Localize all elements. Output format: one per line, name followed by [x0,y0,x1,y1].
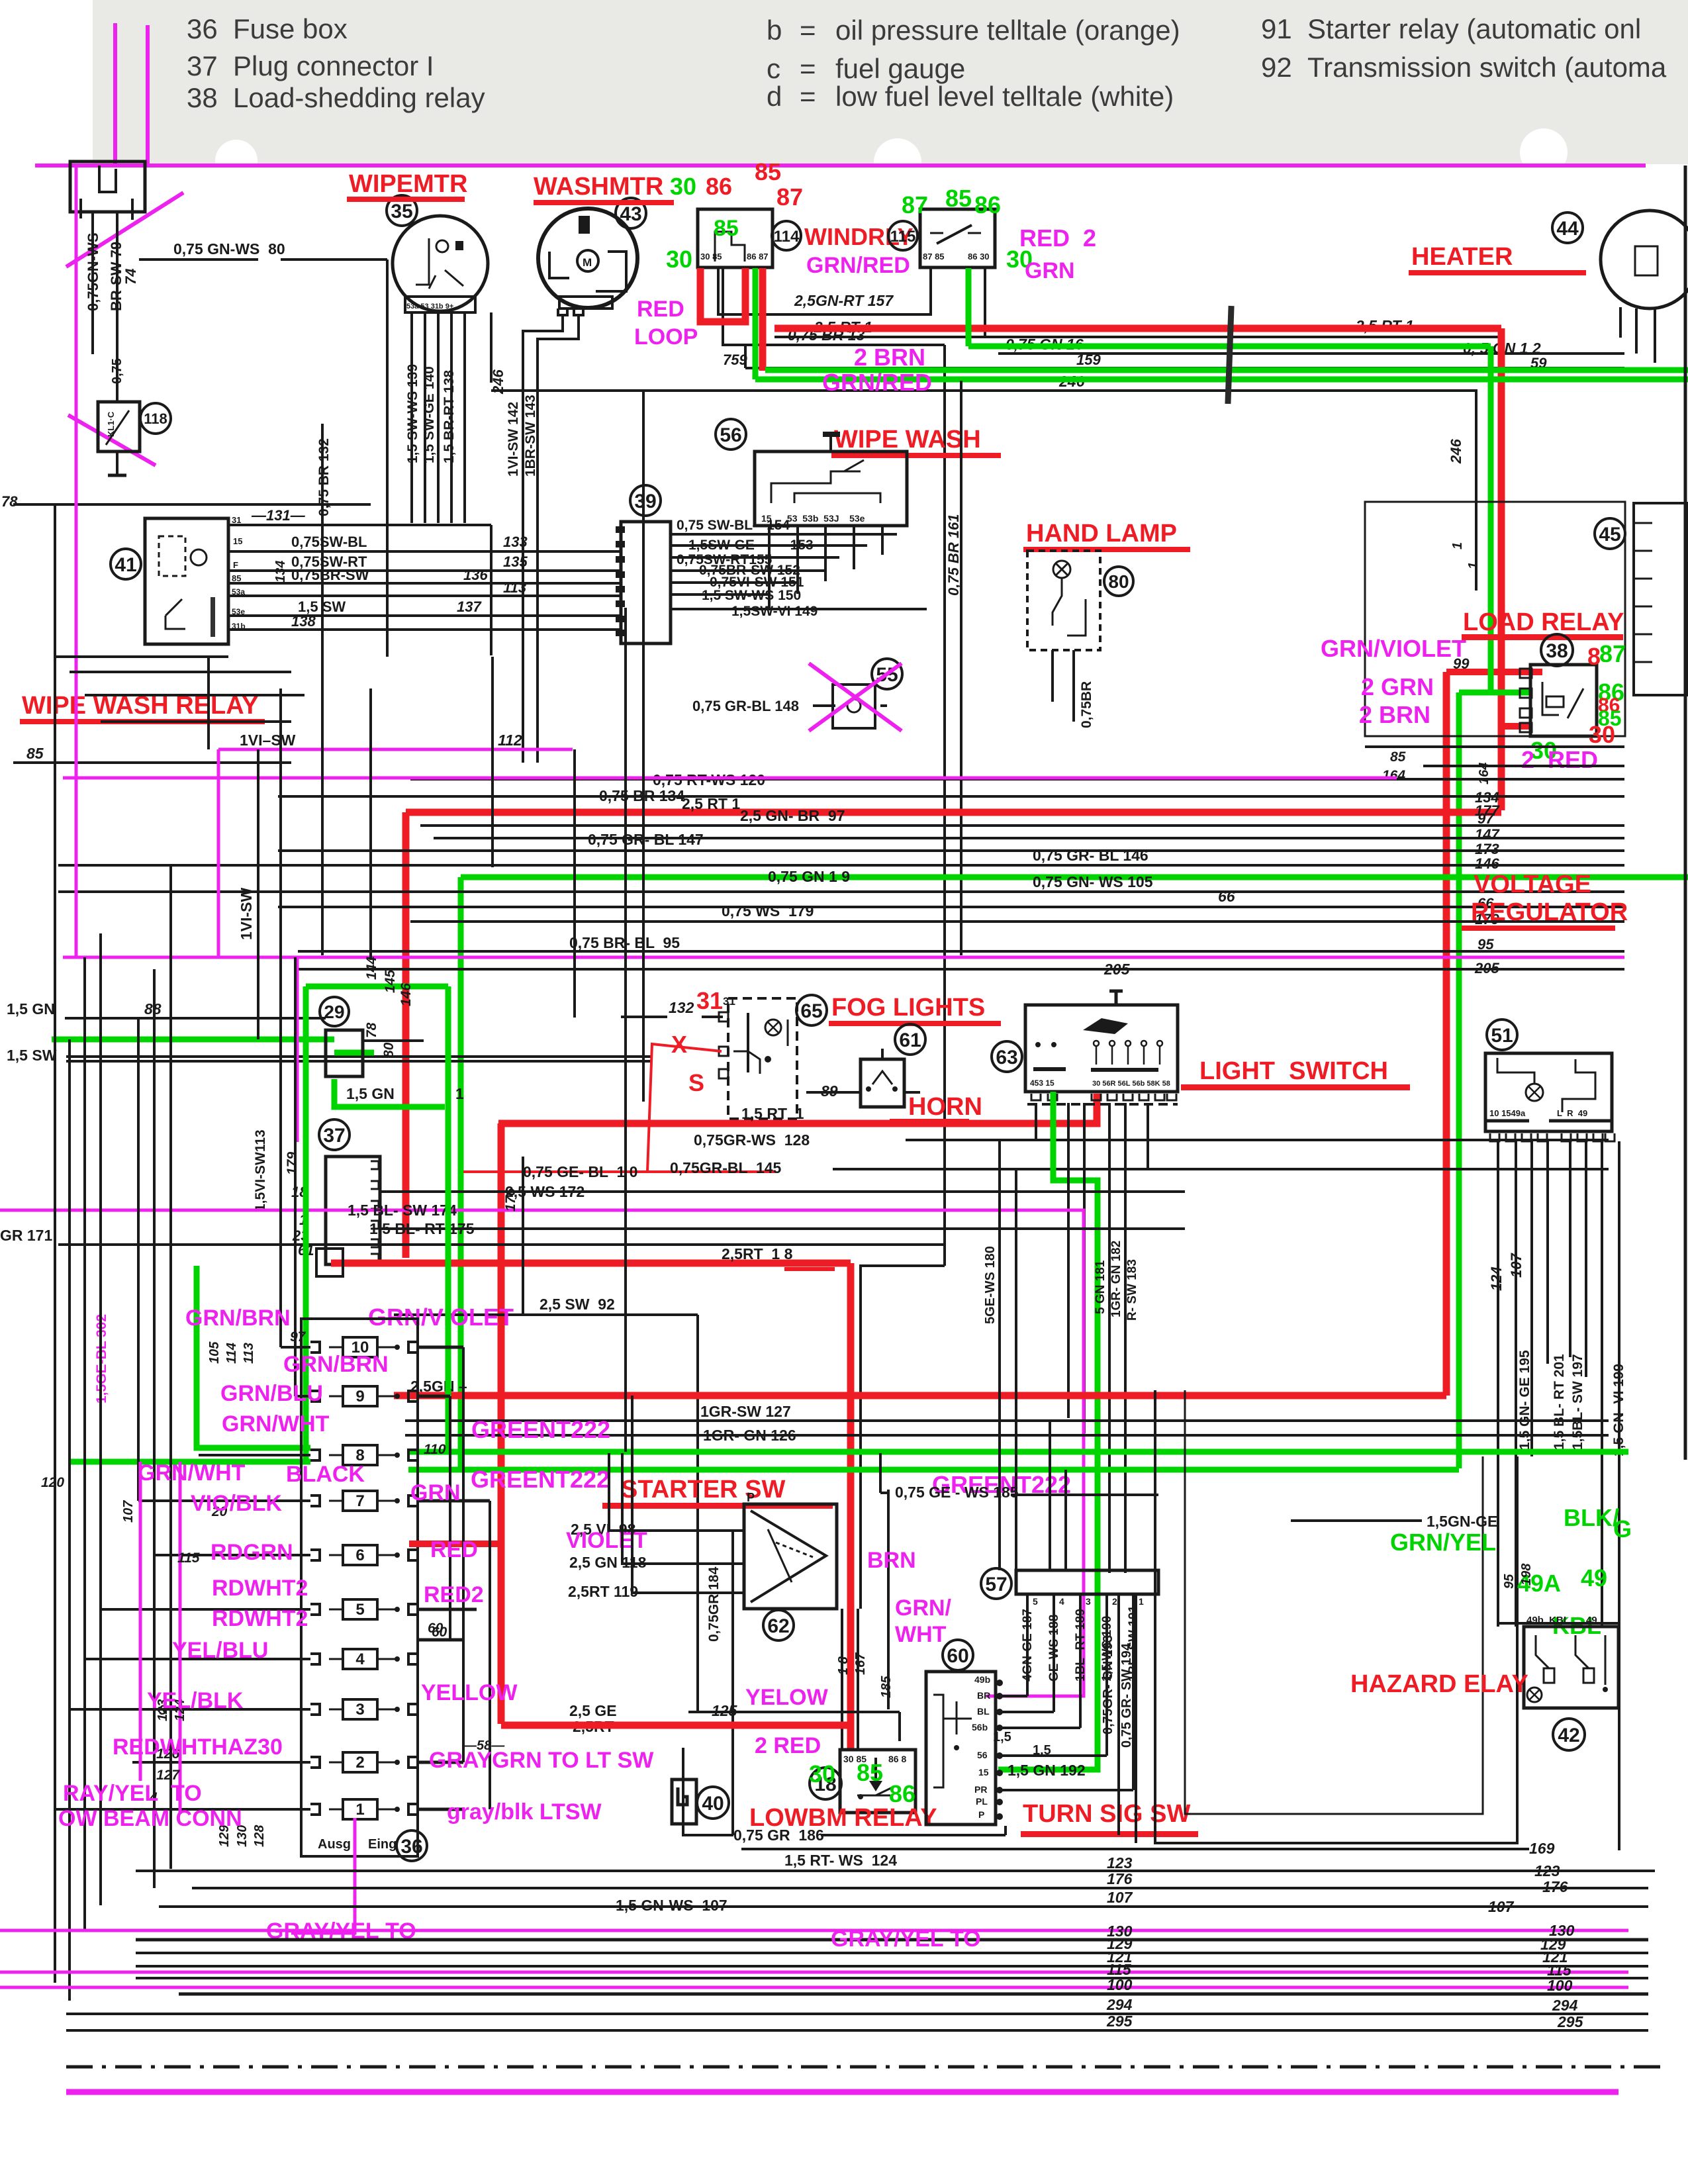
wire 63 drop c [1108,1103,1111,1573]
fuse 5 [343,1599,377,1619]
svg-text:1,5 SW: 1,5 SW [7,1047,57,1064]
wire scan edge [1684,166,1687,1460]
svg-text:RDWHT2: RDWHT2 [212,1576,308,1601]
svg-text:L R 49: L R 49 [1557,1108,1587,1118]
wire wire 0,75SW-BL 154 [671,533,897,536]
svg-text:=: = [800,15,816,46]
wire red marker to load relay [1498,328,1505,810]
svg-text:Load-shedding relay: Load-shedding relay [233,82,485,113]
wire wire 78 [13,503,371,506]
svg-text:123: 123 [1107,1854,1133,1872]
wire wire 131 down [490,525,492,655]
big wiring loop rectangle [1155,1390,1517,1843]
svg-text:0,75 GE- BL 1 0: 0,75 GE- BL 1 0 [523,1163,637,1180]
wire green marker bus 1 [968,344,1491,350]
wire red marker 99 into relay 38 [1446,669,1542,675]
wire 51 drop c [1530,1141,1533,1456]
svg-text:0,75GR-BL 145: 0,75GR-BL 145 [670,1159,782,1176]
connector 57 pins [1026,1594,1029,1605]
svg-text:29: 29 [324,1002,344,1022]
svg-text:169: 169 [1529,1840,1555,1857]
punch hole 3 [1520,128,1568,176]
switch 60 pin dot [996,1770,1003,1776]
svg-text:31b: 31b [232,622,246,631]
svg-text:1,5 SW-WS 150: 1,5 SW-WS 150 [702,588,801,603]
wire red marker 117 [498,1094,1097,1123]
wire green marker 29 out [334,1050,374,1056]
component turn signal switch 60 [926,1672,996,1825]
fuse 4 terminals [310,1654,320,1664]
svg-text:87: 87 [902,191,928,218]
wire green marker v1 [445,986,451,1452]
wire green marker row a [408,1449,1628,1455]
wire fuse7 feed [138,1499,310,1502]
fuse 2 [343,1752,377,1772]
wire wire under 38 a [1365,745,1624,748]
wire green marker into 38 [1488,346,1494,692]
svg-text:0,75BR: 0,75BR [1079,681,1094,728]
wire 63 drop a [1067,1103,1070,1418]
wire wire GN-WS down [91,212,94,354]
fuse 4 [343,1649,377,1669]
svg-text:GRN/BRN: GRN/BRN [283,1352,389,1377]
wire red marker row 93 [394,1392,1446,1400]
node label circle 60 [943,1640,973,1670]
svg-text:BLK/: BLK/ [1564,1504,1619,1531]
svg-text:107: 107 [1488,1898,1515,1915]
node label circle 63 [992,1041,1022,1072]
svg-text:R- SW 183: R- SW 183 [1125,1259,1139,1321]
component wipe wash switch 56 [755,451,907,526]
component load relay 118 [98,402,140,451]
svg-text:61: 61 [899,1029,921,1051]
svg-text:0,75 SW-BL—154: 0,75 SW-BL—154 [677,518,790,533]
wire wire 0,75 GR 171 [58,1243,945,1246]
wire left bus v7 [169,865,172,1869]
wire wire 119 [635,1591,744,1594]
node label circle 118 [140,403,171,434]
svg-text:124: 124 [1488,1266,1505,1291]
wire 51 drop a [1497,1141,1499,1627]
svg-text:176: 176 [503,1188,518,1211]
svg-text:P: P [747,1491,755,1504]
wire hand lamp wire b [1072,650,1075,722]
wire washer motor wire 143 [538,316,579,763]
wire heater pin b [1635,309,1638,354]
wire wire 1,5 SW-WS 150 [671,593,769,596]
svg-text:1,5SW-VI 149: 1,5SW-VI 149 [731,604,818,619]
svg-text:7: 7 [355,1492,364,1510]
svg-text:WIPE WASH: WIPE WASH [834,426,981,453]
wire wire 118 elbow [622,1453,635,1564]
node label circle 29 [320,997,349,1026]
wire 63 drop d [1124,1103,1127,1573]
node label circle 65 [796,995,827,1025]
switch 63 lever [1083,1018,1128,1034]
wiper motor 35 inner detail [416,238,429,285]
svg-text:P: P [978,1809,984,1820]
svg-text:RED2: RED2 [424,1582,484,1607]
wire fuse3 feed [70,1708,310,1711]
wire wire 132b [702,1016,723,1018]
svg-text:43: 43 [620,203,641,225]
fuse 6 [343,1545,377,1565]
wire fuse right stub 5b [418,1638,463,1642]
wire fuse2 feed [132,1761,310,1764]
wire bus 107 [159,1905,1648,1908]
connector 39 pin [616,616,625,622]
svg-text:0,75 BR 134: 0,75 BR 134 [599,787,684,804]
wire wire 2,5 GE 125 [688,1711,900,1713]
svg-text:YEL/BLK: YEL/BLK [147,1688,244,1713]
wire wire 135 [228,569,621,572]
wire red marker right drop [847,1263,855,1750]
svg-text:137: 137 [457,598,482,615]
svg-text:LIGHT SWITCH: LIGHT SWITCH [1199,1057,1388,1085]
fuse 7 [343,1491,377,1511]
svg-text:115: 115 [177,1550,200,1566]
wire wiper motor pin wire [463,312,466,523]
wire left bus v5 [137,1018,140,1501]
component hand lamp 80 [1027,551,1100,650]
wire wire 137 [228,614,621,617]
svg-text:100: 100 [1107,1976,1133,1993]
wire left bus v10 [294,957,297,1396]
svg-text:HORN: HORN [908,1093,982,1121]
svg-text:2,5GN-RT 157: 2,5GN-RT 157 [794,292,894,309]
wire thin red 170 wire [463,1170,776,1173]
flasher 51 internals [1526,1084,1543,1101]
component light switch 63 [1025,1005,1178,1092]
svg-text:0,75 GN-WS 80: 0,75 GN-WS 80 [173,240,285,258]
wire wire 1,5SW-VI 149 [671,608,927,610]
fuse 5 terminals [310,1604,320,1615]
fuse 8 terminals [310,1450,320,1460]
svg-text:205: 205 [1474,960,1499,976]
wire wire 0,75GE-WS 185 label line [1011,1494,1158,1496]
svg-text:GR 171: GR 171 [0,1227,52,1244]
wire fuse4 feed [85,1658,310,1660]
component hazard relay 42 [1524,1627,1618,1708]
wire switch 56 pin wire [796,526,799,594]
svg-text:HAND LAMP: HAND LAMP [1026,520,1177,547]
svg-text:G: G [1613,1515,1632,1543]
svg-text:31: 31 [723,995,735,1008]
svg-text:2: 2 [1112,1596,1117,1607]
svg-text:4: 4 [1059,1596,1064,1607]
svg-text:2 BRN: 2 BRN [1359,701,1430,728]
wire dash line under 63 [1027,1103,1178,1106]
wire fuse right v2 [449,1396,451,1640]
svg-text:1 8: 1 8 [836,1656,851,1675]
svg-text:0,75SW-BL: 0,75SW-BL [291,534,367,550]
svg-text:87 85: 87 85 [923,252,945,261]
wire bus 100 [179,1993,1648,1996]
svg-text:294: 294 [1552,1997,1578,2014]
magenta slash at relay 118 [68,415,156,465]
svg-text:2 RED: 2 RED [755,1733,821,1758]
wire green marker bus 109 [461,875,1688,880]
magenta cross over 55 [809,663,902,731]
switch 63 inner pins [1035,1042,1041,1047]
red marker loop at relay 114 [700,268,745,322]
svg-text:1,5 GN 192: 1,5 GN 192 [1008,1762,1086,1779]
svg-text:41: 41 [115,554,136,576]
svg-text:295: 295 [1557,2013,1584,2030]
hand lamp bulb [1053,561,1070,578]
svg-text:128: 128 [252,1825,267,1847]
svg-text:1,5SW-GE —— 153: 1,5SW-GE —— 153 [688,538,814,553]
wire 51 drop h [1618,1141,1620,1850]
component buzzer 40 [672,1780,696,1824]
wire 60-57 link a [1000,1695,1027,1697]
hand lamp switch [1053,578,1062,626]
wire fuse right stub 10 [418,1346,463,1349]
svg-text:LOAD RELAY: LOAD RELAY [1463,608,1624,636]
svg-text:0,75 GN- WS 105: 0,75 GN- WS 105 [1033,873,1153,890]
svg-text:56b: 56b [972,1722,988,1733]
svg-text:42: 42 [1558,1725,1579,1746]
svg-text:5GE-WS 180: 5GE-WS 180 [983,1246,998,1324]
svg-text:d: d [767,81,782,112]
wire wiper motor pin wire [450,312,453,523]
svg-text:114: 114 [774,228,800,246]
svg-text:1VI-SW 142: 1VI-SW 142 [506,402,521,477]
wire mid vertical a [369,688,372,960]
svg-text:146: 146 [399,983,414,1006]
svg-text:185: 185 [879,1676,894,1698]
svg-text:10 1549a: 10 1549a [1489,1108,1526,1118]
node label circle 37 [319,1119,350,1150]
svg-text:Starter relay (automatic onl: Starter relay (automatic onl [1307,13,1641,44]
node label circle 80 [1104,567,1133,596]
component fog switch 65 [728,998,797,1119]
wire bus 1GR-GN 126 [405,1434,1609,1437]
wire bus 0,75GR-BL 145 [833,1168,1609,1170]
svg-text:WHT: WHT [895,1622,947,1647]
wire wire 185 [887,1490,890,1709]
svg-text:VOLTAGE: VOLTAGE [1474,871,1591,898]
wire mid vertical c [573,749,576,1018]
wire magenta marker left v b [179,1462,182,1814]
connector 39 pin [616,556,625,563]
svg-text:BRN: BRN [867,1548,916,1573]
svg-text:—131—: —131— [251,507,306,524]
svg-text:2 RED: 2 RED [1521,746,1598,773]
svg-text:112: 112 [498,732,522,749]
wire green marker row b [408,1467,1459,1473]
fuse 7 terminals [310,1496,320,1506]
connector 39 pin [616,541,625,547]
svg-text:45: 45 [1599,524,1620,546]
svg-text:92: 92 [1261,52,1292,83]
washer motor 43 body [538,209,637,308]
svg-text:0,75 BR 161: 0,75 BR 161 [945,514,962,596]
wire magenta marker 174 [0,1210,1084,1696]
switch 60 pin dot [996,1725,1003,1731]
svg-text:1,5: 1,5 [993,1730,1011,1744]
svg-text:fuel gauge: fuel gauge [835,53,965,84]
svg-text:GRN/: GRN/ [895,1595,952,1621]
fog switch pins [719,1012,728,1021]
wire heater pin c [1654,309,1656,363]
svg-text:GRN/RED: GRN/RED [822,369,932,396]
wire feed to 57 [1015,1169,1017,1570]
wire wire GR-GN [1117,1594,1120,1835]
wire wire 0,75 GR-BL 148 [813,704,833,707]
wire wire 161 bottom elbow [861,1266,945,1609]
svg-text:60: 60 [428,1621,444,1636]
wire bus 0,75 GR-BL 146 [58,864,1624,867]
svg-text:167: 167 [853,1652,868,1675]
svg-text:M: M [583,256,592,269]
wire magenta marker left drop [75,166,78,957]
svg-text:49: 49 [1581,1564,1607,1591]
wire bus 294 [66,2013,1648,2015]
wire hand lamp wire a [1051,650,1054,702]
wire wire GR-SW [1135,1594,1137,1843]
wire pin stub [79,199,82,218]
switch 60 pin dot [996,1787,1003,1793]
svg-text:REGULATOR: REGULATOR [1471,898,1628,926]
wire wire 167a [841,1609,843,1750]
wire wiper motor pin wire [410,312,413,523]
wire bus 173 [278,849,1624,852]
svg-text:0,75 GR- BL 146: 0,75 GR- BL 146 [1033,847,1149,864]
svg-text:85: 85 [755,158,781,185]
svg-text:86 30: 86 30 [968,252,990,261]
wire green marker h bridge [306,984,448,990]
svg-text:56: 56 [720,424,741,446]
wire fuse right stub 2 [418,1761,463,1764]
svg-text:gray/blk LTSW: gray/blk LTSW [447,1799,602,1825]
svg-text:HAZARD ELAY: HAZARD ELAY [1350,1670,1528,1698]
switch 55 internals [847,699,861,712]
svg-text:86: 86 [974,191,1001,218]
svg-text:53a: 53a [232,587,245,596]
svg-text:PR: PR [974,1784,987,1795]
wire fuse right stub 6 red [409,1541,501,1547]
svg-text:TURN SIG SW: TURN SIG SW [1023,1800,1190,1828]
component flasher 51 [1485,1053,1612,1131]
wire wire 176 rot drop [522,1157,524,1315]
wire wire 1,5GN 88 [65,1017,326,1020]
svg-text:53e: 53e [232,607,245,616]
svg-text:86: 86 [889,1780,915,1807]
svg-text:STARTER SW: STARTER SW [621,1476,786,1503]
svg-text:Eing: Eing [368,1837,397,1852]
node label circle 51 [1487,1020,1517,1050]
starter switch 62 internals [751,1511,826,1602]
wire bus 176 [192,1887,1648,1889]
wire left bus v3 [83,957,86,1930]
wire wire 246 long [491,391,1476,591]
svg-text:2,5 GN- BR 97: 2,5 GN- BR 97 [740,807,845,824]
wire bus 0,75 BR 134 [278,795,1624,798]
component load relay 38 [1530,665,1597,736]
svg-text:78: 78 [364,1022,379,1038]
svg-text:118: 118 [144,410,167,427]
node label circle 35 [387,195,417,226]
svg-text:1: 1 [355,1801,364,1819]
wire wire 2,5GN-RT 157 [718,268,931,314]
wire feed to 57 [1049,1421,1051,1570]
svg-text:176: 176 [1542,1878,1568,1895]
svg-text:80: 80 [1108,571,1129,592]
svg-text:30: 30 [1589,721,1615,748]
svg-text:YEL/BLU: YEL/BLU [172,1638,268,1663]
svg-text:HEATER: HEATER [1411,243,1513,271]
wire wire 167b [857,1609,859,1750]
wire wire 29 right [363,1039,424,1042]
node label circle 43 [616,198,646,228]
node label circle 62 [763,1610,794,1640]
wire left bus v6 [153,969,156,1888]
51 pin row [1490,1133,1499,1141]
svg-text:GRN/RED: GRN/RED [806,253,910,278]
wire wire 0,75VI-SW 151 [671,581,798,584]
washer motor M symbol [577,250,598,271]
svg-text:1GR-SW 127: 1GR-SW 127 [700,1403,791,1420]
wire 51 drop g [1601,1141,1603,1627]
wire magenta marker 112 drop [217,749,220,957]
svg-text:95: 95 [1477,936,1494,953]
svg-text:BL: BL [977,1706,990,1717]
svg-text:0,75 GN 1 9: 0,75 GN 1 9 [768,868,850,885]
wire bus 115 [136,1977,1648,1979]
wire bus 66 [278,906,1624,908]
wire wiper motor wire 246 [490,312,492,383]
svg-text:1GR- GN 126: 1GR- GN 126 [703,1427,796,1444]
switch 60 pin dot [996,1813,1003,1820]
svg-text:RAY/YEL TO: RAY/YEL TO [63,1781,202,1806]
svg-text:1,5VI-SW113: 1,5VI-SW113 [253,1129,268,1211]
component connector 57 [1016,1570,1158,1594]
wire 51 drop b [1515,1141,1517,1627]
component relay 114 [698,209,773,267]
svg-text:37: 37 [187,50,218,81]
wire feed to 57 [998,1140,1001,1570]
wire dash-dot bus [66,2065,1668,2069]
wire 51 drop f [1585,1141,1587,1377]
node label circle 41 [111,549,141,579]
svg-text:30: 30 [670,173,696,200]
wire bus 0,75 RT-WS 120 [410,778,1624,781]
svg-text:GE-WS 188: GE-WS 188 [1047,1615,1061,1682]
node label circle 114 [772,221,801,250]
wire wire 169 [741,1848,1529,1850]
svg-text:0,75GR 184: 0,75GR 184 [706,1566,722,1642]
washer motor pin hooks [558,309,567,315]
wire red marker left long drop [498,1123,505,1724]
wire red marker down from 38 [1443,672,1450,1396]
svg-text:198: 198 [1519,1563,1534,1586]
svg-text:146: 146 [1475,855,1499,872]
svg-text:78: 78 [1,493,18,510]
node label circle 40 [697,1787,729,1819]
wire left bundle c [85,694,305,696]
component plug 29 [326,1030,363,1076]
wire bus 129 [136,1952,1648,1954]
wire wire 92 drop [696,1315,699,1712]
svg-text:65: 65 [800,1000,822,1022]
node label circle 56 [716,419,746,450]
svg-text:205: 205 [1103,961,1131,978]
svg-text:179: 179 [285,1152,300,1175]
wire wire 118 ground [116,451,118,475]
wire magenta bus b [0,1971,1628,1974]
fuse 9 [343,1386,377,1406]
